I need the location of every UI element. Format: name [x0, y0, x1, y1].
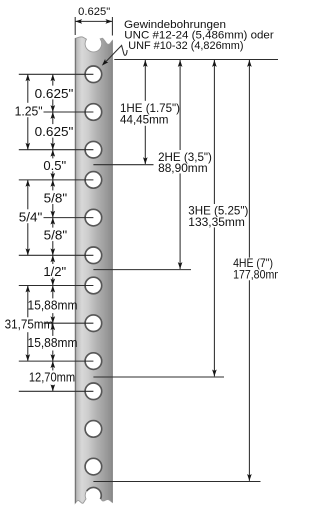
dimension 2HE (3,5") — [179, 60, 181, 150]
mounting hole 3 — [85, 141, 102, 158]
end line 3HE (5.25") — [93, 376, 224, 378]
extension line hole 4 — [19, 179, 94, 181]
dimension 15,88mm — [52, 286, 54, 299]
svg-text:12,70mm: 12,70mm — [29, 369, 75, 384]
svg-text:0.625": 0.625" — [35, 124, 74, 139]
dimension 12,70mm — [52, 361, 54, 370]
dimension 3HE (5.25") — [213, 60, 215, 204]
svg-text:5/8": 5/8" — [44, 190, 68, 205]
svg-text:15,88mm: 15,88mm — [28, 335, 78, 350]
rail right edge — [111, 41, 113, 503]
dimension 1.25" — [27, 74, 29, 103]
extension line hole 2 — [44, 111, 94, 113]
svg-text:133,35mm: 133,35mm — [188, 216, 245, 229]
mounting hole 10 — [85, 383, 102, 400]
svg-text:0.5": 0.5" — [43, 158, 66, 173]
svg-text:5/8": 5/8" — [44, 228, 68, 243]
top width dimension extension lines — [74, 17, 76, 35]
extension line hole 5 — [44, 217, 94, 219]
dimension 1/2" — [52, 255, 54, 264]
svg-text:177,80mm: 177,80mm — [233, 268, 278, 281]
arrow right — [106, 19, 113, 24]
extension line hole 6 — [19, 254, 94, 256]
mounting hole 9 — [85, 353, 102, 370]
extension line hole 8 — [44, 322, 94, 324]
svg-text:0.625": 0.625" — [78, 6, 110, 18]
mounting hole 12 — [85, 458, 102, 475]
dimension 5/8" — [52, 180, 54, 191]
rail strip body (torn top and bottom edges) — [75, 37, 112, 503]
dimension 5/8" — [52, 218, 54, 228]
svg-text:44,45mm: 44,45mm — [120, 113, 169, 126]
dimension 4HE (7") — [248, 60, 250, 258]
dimension 15,88mm — [52, 323, 54, 336]
extension line hole 7 — [19, 285, 94, 287]
dimension 0.625" — [52, 74, 54, 85]
svg-text:1.25": 1.25" — [15, 103, 43, 118]
mounting hole 4 — [85, 172, 102, 189]
leader squiggle and line to hole 1 — [103, 45, 127, 64]
svg-text:0.625": 0.625" — [35, 86, 74, 101]
dimension 5/4" — [27, 180, 29, 209]
end line 2HE (3,5") — [93, 269, 191, 271]
extension line hole 3 — [19, 149, 94, 151]
extension line hole 10 — [19, 390, 94, 392]
datum line (top reference) — [114, 59, 278, 61]
svg-text:5/4": 5/4" — [19, 209, 43, 224]
mounting hole 2 — [85, 104, 102, 121]
svg-text:88,90mm: 88,90mm — [158, 162, 208, 175]
arrow left — [75, 19, 82, 24]
mounting hole 11 — [85, 421, 102, 438]
extension line hole 9 — [19, 360, 94, 362]
svg-text:1/2": 1/2" — [43, 264, 66, 279]
mounting hole 8 — [85, 315, 102, 332]
mounting hole 13 (torn) ring — [87, 487, 101, 499]
dimension 0.625" — [52, 112, 54, 124]
dimension 31,75mm — [27, 286, 29, 318]
dimension 0.5" — [52, 150, 54, 159]
mounting hole 5 — [85, 209, 102, 226]
dimension 1HE (1.75") — [144, 60, 146, 101]
mounting hole 1 — [85, 66, 102, 83]
end line 1HE (1.75") — [93, 164, 153, 166]
leader arrowhead — [100, 59, 108, 67]
mounting hole 6 — [85, 247, 102, 264]
rail left edge — [75, 38, 77, 503]
svg-text:15,88mm: 15,88mm — [28, 297, 78, 312]
top width dimension line — [75, 20, 112, 22]
svg-text:31,75mm: 31,75mm — [5, 316, 54, 331]
svg-text:UNF #10-32 (4,826mm): UNF #10-32 (4,826mm) — [128, 40, 244, 52]
mounting hole 7 — [85, 277, 102, 294]
end line 4HE (7") — [93, 481, 260, 483]
extension line hole 1 — [19, 73, 94, 75]
